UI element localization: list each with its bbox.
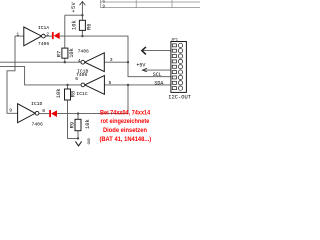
wire R7 bottom lead [64,58,66,62]
svg-text:Diode einsetzen: Diode einsetzen [103,127,147,134]
svg-text:I2C-OUT: I2C-OUT [168,95,191,101]
svg-text:IC1A: IC1A [38,25,49,31]
resistor R7 [56,48,74,58]
svg-text:SCL: SCL [153,72,162,78]
svg-text:IC1D: IC1D [31,101,42,107]
junction R9/GND rail [77,137,79,139]
inverter IC1C (7406, mirrored) [75,72,111,97]
wire R9 top lead [77,114,79,120]
junction IC1B input/SCL [127,61,129,63]
wire D1 to SCL corner down to connector [60,36,171,77]
wire +5V branch to R7 [65,14,83,16]
svg-text:+5V: +5V [71,1,77,12]
resistor R9 [70,119,91,130]
resistor R8 [56,88,76,100]
+5V supply arrow (connector) [143,68,148,72]
wire D2 to SDA vertical [57,85,128,114]
svg-text:10k: 10k [71,20,77,30]
wire SDA-left net (IC1C output) [0,67,81,85]
svg-text:+5V: +5V [136,62,145,68]
svg-text:10k: 10k [56,88,62,98]
inverter IC1B (7406, mirrored) [77,49,113,75]
wire +5V stem to R6 top [81,2,83,21]
junction R8/SDA-left [66,84,68,86]
svg-text:R7: R7 [56,51,62,57]
wire SCL-left net (IC1B output) [0,61,81,63]
svg-text:10k: 10k [85,119,91,129]
red note text [99,110,151,143]
svg-text:9: 9 [102,4,105,9]
+5V supply arrow (top) [80,2,86,6]
svg-text:5: 5 [109,80,112,86]
ground arrow (bottom rail) [75,141,81,146]
resistor R6 [71,20,92,30]
junction SDA bus [127,84,129,86]
svg-text:7406: 7406 [78,49,89,55]
inverter IC1A (7406) [16,25,49,47]
svg-text:R9: R9 [70,122,76,128]
title-block table (top right, cropped) [100,0,200,8]
diode D1 (red, at IC1A output) [52,32,60,39]
junction R7/SCL-left [64,61,66,63]
wire R8 bottom lead to GND rail [68,100,80,138]
wire R6 bottom lead [81,30,83,36]
svg-text:(BAT 41, 1N4148...): (BAT 41, 1N4148...) [99,136,151,143]
wire SDA bus to connector [104,84,170,86]
wire IC1B input [104,61,128,63]
junction R6/SCL [81,35,83,37]
junction +5V/R6 [81,14,83,16]
svg-text:Bei 74xx04, 74xx14: Bei 74xx04, 74xx14 [100,110,150,117]
wire R8 top lead [67,85,69,89]
connector JP1 (I2C-OUT header) [168,39,191,101]
svg-text:8: 8 [42,108,45,114]
diode D2 (red, at IC1D output) [49,110,57,117]
junction R9/IC1D output [77,112,79,114]
wire IC1A input / IC1D input net [7,36,24,113]
svg-text:7406: 7406 [38,41,49,47]
svg-text:GND: GND [88,138,92,144]
svg-text:4: 4 [78,58,81,64]
wire +5V pin of connector [142,69,171,71]
inverter IC1D (7406) [9,101,45,128]
svg-text:2: 2 [46,32,49,38]
svg-text:7406: 7406 [32,121,43,127]
svg-text:9: 9 [9,108,12,114]
wire IC1A output to diode D1 [45,35,52,37]
svg-text:IC1C: IC1C [76,91,87,97]
svg-text:R6: R6 [86,24,92,30]
svg-text:6: 6 [75,76,78,82]
svg-text:10k: 10k [69,48,75,58]
svg-text:rot eingezeichnete: rot eingezeichnete [101,118,150,125]
svg-text:1: 1 [16,32,19,38]
wire IC1D output to diode D2 [39,113,49,115]
wire R9 bottom lead [77,131,79,139]
wire GND pin of connector [142,50,171,52]
svg-text:SDA: SDA [154,80,163,86]
ground arrow (connector GND pin) [142,47,146,55]
svg-text:3: 3 [110,57,113,63]
title-block table text [102,0,105,9]
